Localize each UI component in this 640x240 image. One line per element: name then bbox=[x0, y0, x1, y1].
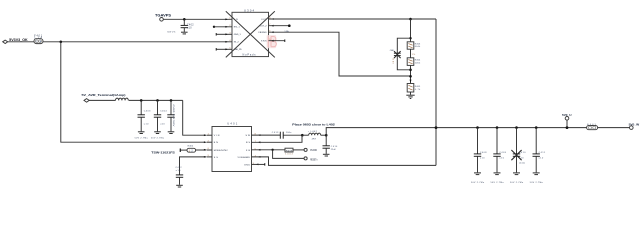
wire TSW to MODE bbox=[196, 149, 206, 151]
wire down to EN bbox=[61, 42, 206, 142]
wire AVR to VIN bbox=[183, 100, 206, 135]
resistor R403 bbox=[407, 42, 421, 49]
U304 pin 4 arrow on main wire bbox=[225, 40, 231, 43]
output rail up bbox=[326, 128, 631, 136]
red DNP marker bbox=[267, 35, 277, 48]
ground bbox=[406, 95, 414, 98]
op IC U304 (DNP crossed out) bbox=[232, 8, 269, 56]
svg-text:R403: R403 bbox=[415, 43, 421, 45]
svg-text:50V 2.7Ma: 50V 2.7Ma bbox=[471, 182, 485, 184]
svg-text:4R7: 4R7 bbox=[312, 139, 317, 141]
jumper TSW bbox=[151, 146, 195, 155]
U401 pin SS arrow bbox=[204, 155, 212, 158]
svg-text:E401: E401 bbox=[587, 124, 596, 126]
svg-text:U401: U401 bbox=[227, 122, 238, 126]
junction output rail x436 bbox=[435, 126, 438, 129]
U401 pin MODE arrow bbox=[204, 148, 212, 151]
svg-text:BS: BS bbox=[246, 142, 251, 144]
ground bbox=[181, 32, 188, 34]
inductor L402 bbox=[302, 131, 326, 140]
U401 BS pin wire bbox=[252, 135, 303, 143]
U401 SW pin to boot cap bbox=[252, 134, 281, 136]
capacitor C404 bbox=[151, 100, 167, 139]
wire TGAVPS to U304 pin1 bbox=[163, 18, 232, 20]
svg-text:22uF: 22uF bbox=[331, 149, 337, 151]
svg-text:C411: C411 bbox=[539, 152, 546, 154]
svg-text:GND_1: GND_1 bbox=[234, 34, 242, 36]
wire down output to bottom rail bbox=[435, 19, 437, 165]
svg-text:1%: 1% bbox=[412, 54, 416, 56]
ground bbox=[323, 154, 330, 156]
svg-text:1002: 1002 bbox=[285, 154, 293, 156]
wire bbox=[8, 41, 34, 43]
svg-text:u10: u10 bbox=[187, 27, 192, 29]
svg-text:Place 0603 close to L402: Place 0603 close to L402 bbox=[292, 122, 335, 126]
junction bbox=[409, 37, 411, 39]
capacitor C402 bbox=[167, 19, 194, 33]
output capacitor C411 bbox=[530, 126, 546, 184]
svg-text:EN_1: EN_1 bbox=[234, 27, 241, 29]
capacitor C403 bbox=[135, 100, 151, 139]
svg-text:SS: SS bbox=[214, 157, 219, 159]
U304 pin 5 stub bbox=[216, 47, 232, 50]
svg-text:R408: R408 bbox=[286, 150, 293, 152]
svg-text:5V0_W: 5V0_W bbox=[629, 122, 640, 126]
capacitor C405 bbox=[167, 100, 174, 131]
output capacitor C408 bbox=[471, 126, 487, 184]
connector J_5V3V3_OK bbox=[3, 38, 29, 43]
junction (DNP cap return) bbox=[409, 69, 412, 72]
svg-text:1.5A: 1.5A bbox=[284, 30, 289, 33]
svg-text:NoPads: NoPads bbox=[243, 54, 257, 57]
down arrow bbox=[410, 80, 412, 83]
junction bbox=[301, 134, 304, 137]
output capacitor C409 bbox=[491, 126, 507, 184]
connector 5V0_USB bbox=[562, 113, 572, 129]
svg-text:50V 2.7Ma: 50V 2.7Ma bbox=[530, 182, 544, 184]
connector TGAVPS bbox=[155, 14, 171, 22]
svg-text:TSW-11021FS: TSW-11021FS bbox=[151, 150, 175, 154]
svg-text:U304: U304 bbox=[244, 8, 255, 12]
svg-text:C402: C402 bbox=[187, 25, 194, 27]
svg-text:+ L402: + L402 bbox=[308, 131, 318, 133]
ground bbox=[168, 132, 175, 134]
junction (FB wire) bbox=[409, 75, 412, 78]
U304 pin 1 arrow bbox=[225, 17, 231, 20]
resistor R402 bbox=[285, 148, 304, 155]
U401 pin EN arrow bbox=[204, 140, 212, 143]
svg-text:50V 2.7Ma: 50V 2.7Ma bbox=[151, 138, 165, 140]
ground bbox=[138, 132, 145, 134]
branch to RESET bbox=[273, 150, 305, 159]
connector RESET bbox=[304, 157, 318, 162]
svg-text:R404: R404 bbox=[415, 60, 421, 62]
svg-text:FB: FB bbox=[246, 150, 251, 152]
svg-text:FB/SNS: FB/SNS bbox=[259, 32, 268, 34]
svg-text:C405 2u2 50V: C405 2u2 50V bbox=[172, 105, 174, 128]
resistor R404 bbox=[407, 58, 421, 66]
svg-text:DNI: DNI bbox=[391, 59, 393, 64]
inductor L401 bbox=[116, 98, 129, 100]
svg-text:VIN: VIN bbox=[214, 135, 220, 137]
U304 SNS stub bbox=[269, 39, 285, 42]
wire bbox=[89, 99, 115, 101]
svg-text:(1u0): (1u0) bbox=[519, 163, 525, 165]
connector 5V0_W bbox=[629, 122, 640, 129]
junction bbox=[156, 99, 159, 102]
svg-text:4.7k: 4.7k bbox=[415, 89, 421, 91]
regulator U401 bbox=[212, 122, 252, 172]
U304 pin out wire (net 5V0) bbox=[269, 17, 437, 20]
svg-text:5V_AVR_Terminal(1Amp): 5V_AVR_Terminal(1Amp) bbox=[82, 93, 126, 97]
svg-text:PGOOD: PGOOD bbox=[310, 149, 317, 152]
junction bbox=[140, 99, 143, 102]
svg-text:MODE/SYNC: MODE/SYNC bbox=[214, 150, 228, 152]
svg-text:GND_PD: GND_PD bbox=[234, 49, 242, 51]
svg-text:50V 2.7Ma: 50V 2.7Ma bbox=[491, 182, 505, 184]
connector 5V_AVR_Terminal bbox=[82, 93, 126, 102]
resistor R405 bbox=[407, 84, 421, 93]
capacitor C412 on SS bbox=[176, 157, 207, 185]
connector PGOOD bbox=[304, 148, 317, 152]
wire AVR rail bbox=[129, 99, 183, 101]
svg-text:E402: E402 bbox=[188, 146, 194, 148]
svg-text:TGAVPS: TGAVPS bbox=[155, 14, 171, 18]
svg-text:50V 2.7Ma: 50V 2.7Ma bbox=[510, 182, 524, 184]
ferrite bead E401 bbox=[587, 124, 598, 130]
U401 GND stub bbox=[252, 163, 265, 166]
wire main 5V rail to U304 pin4 bbox=[43, 41, 232, 43]
svg-text:RESETn: RESETn bbox=[310, 158, 318, 161]
svg-text:604k: 604k bbox=[415, 46, 421, 48]
junction bbox=[170, 99, 173, 102]
U304 FB wire to divider bbox=[269, 30, 411, 76]
U401 pin VIN arrow bbox=[204, 133, 212, 136]
svg-text:C408: C408 bbox=[480, 152, 487, 154]
U304 pin 2 stub bbox=[213, 25, 232, 28]
junction bbox=[60, 41, 63, 44]
DNP cross over U304 bbox=[226, 11, 275, 57]
svg-text:C404: C404 bbox=[160, 111, 167, 113]
output capacitor C414 bbox=[323, 135, 339, 154]
svg-text:u10: u10 bbox=[144, 123, 149, 125]
DNP feed-forward capacitor C406 branch bbox=[390, 38, 411, 70]
svg-text:C412: C412 bbox=[176, 167, 183, 169]
svg-text:EN: EN bbox=[214, 142, 218, 144]
svg-text:C414: C414 bbox=[331, 146, 338, 148]
U401 VOS pin to output sense rail bbox=[252, 155, 437, 165]
svg-text:100n: 100n bbox=[286, 132, 292, 134]
svg-text:VOS/AGND: VOS/AGND bbox=[238, 156, 251, 159]
svg-text:5V0_U: 5V0_U bbox=[562, 113, 572, 117]
svg-text:u10: u10 bbox=[160, 123, 165, 125]
U401 FB pin net bbox=[252, 148, 286, 151]
output capacitor C410 (DNP) bbox=[510, 126, 526, 184]
divider chain junction top bbox=[409, 18, 412, 21]
svg-text:IN_2: IN_2 bbox=[234, 42, 240, 44]
svg-text:100k: 100k bbox=[415, 62, 421, 64]
svg-text:SNS: SNS bbox=[261, 41, 267, 43]
ground bbox=[154, 132, 161, 134]
svg-text:C413: C413 bbox=[272, 132, 279, 134]
U304 pin out2 stub bbox=[269, 24, 291, 27]
svg-text:50V 2.7Ma: 50V 2.7Ma bbox=[135, 138, 149, 140]
junction bbox=[183, 18, 186, 21]
junction bbox=[325, 134, 328, 137]
svg-text:R405: R405 bbox=[415, 86, 421, 88]
svg-text:1.1A: 1.1A bbox=[34, 37, 42, 40]
U304 pin 3 stub bbox=[216, 32, 232, 35]
svg-text:50V 2%: 50V 2% bbox=[167, 32, 175, 34]
svg-text:C409: C409 bbox=[499, 152, 506, 154]
svg-text:GND: GND bbox=[244, 165, 250, 167]
svg-text:OUT_2: OUT_2 bbox=[260, 26, 268, 28]
boot capacitor C413 bbox=[272, 132, 303, 139]
svg-text:C403: C403 bbox=[144, 111, 151, 113]
fuse F401 bbox=[34, 35, 43, 43]
ground bbox=[176, 185, 183, 187]
